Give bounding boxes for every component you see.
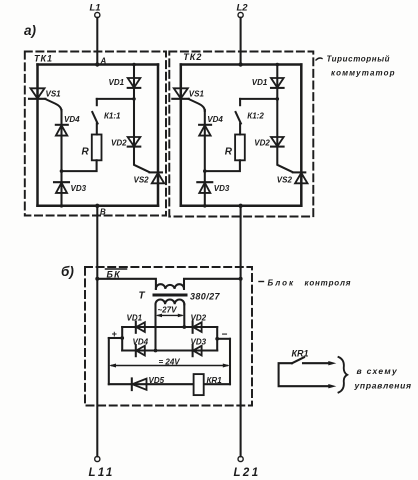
wire secondary left leg [154,304,156,350]
svg-text:VD2: VD2 [191,314,207,323]
svg-text:L11: L11 [89,467,115,479]
junction dot VD1 branch top [132,63,136,67]
wire VD4/VD3 branch (TK2) [204,110,206,206]
terminal L2 [238,12,243,17]
svg-text:контроля: контроля [305,279,352,288]
svg-text:~27V: ~27V [158,306,178,315]
TK2 inner box top wire [181,63,301,66]
TK1 inner box top wire [38,63,159,66]
arrow =24V span [112,365,228,367]
diode VD2 [128,137,141,146]
svg-text:L1: L1 [90,3,101,14]
junction dot BK right [239,277,243,281]
thyristor VS1 [31,88,45,98]
wire L2 down to TK2 top node [240,18,242,65]
TK1 inner box bottom wire [38,205,159,208]
svg-text:В: В [100,208,106,217]
bridge left side wire [121,327,123,351]
label BK with overline [106,268,127,270]
TK2 bottom node [238,204,242,208]
svg-text:VS2: VS2 [277,176,293,185]
annotation tick for thyristor commutator [316,58,322,60]
diode VD3 (TK2) [197,181,212,183]
KR1 contact blade [292,357,304,363]
wire L1 from node B down to L11 [96,206,98,456]
svg-text:L2: L2 [237,3,249,14]
svg-text:КR1: КR1 [207,376,223,385]
svg-text:Т: Т [139,291,146,302]
transformer T secondary winding [156,299,185,304]
terminal L11 [95,456,100,461]
svg-text:VS1: VS1 [46,90,62,99]
VS1 gate wire [45,99,61,111]
svg-text:VD4: VD4 [64,115,80,124]
svg-text:Блок: Блок [268,279,296,288]
resistor R [92,135,102,161]
junction dot VD1 branch / K1:1 wire [132,97,136,101]
svg-text:а): а) [24,23,37,38]
wire from R bottom to VD branch (TK2) [205,160,240,171]
transformer T primary winding [156,284,184,289]
svg-text:R: R [82,147,90,158]
svg-text:VD5: VD5 [149,376,165,385]
terminal L1 [95,12,100,17]
svg-text:L21: L21 [234,467,261,479]
svg-text:А: А [100,57,107,66]
wire L2 from TK2 bottom node down to L21 [240,206,242,456]
diode VD1 (TK2) [271,78,284,88]
VS1 gate wire (TK2) [189,99,205,111]
diode VD3 (bridge) [192,345,194,356]
diode VD4 (bridge) [135,345,137,356]
TK1 inner box right wire [157,65,160,206]
thyristor VS1 (TK2) [174,88,188,98]
junction dot left leg on row2 [154,349,158,353]
svg-text:К1:1: К1:1 [104,112,121,121]
BK top wire from L1 to transformer primary [97,279,156,289]
svg-text:К1:2: К1:2 [247,112,264,121]
TK2 inner box bottom wire [181,205,301,208]
diode VD1 (bridge) [135,322,137,333]
wire from R bottom to VD branch [62,160,97,171]
node A [95,62,99,66]
diode VD2 (bridge) [192,322,194,333]
svg-text:VD3: VD3 [71,184,87,193]
thyristor VS2 [150,171,163,173]
junction dot (TK2) [276,63,280,67]
bridge right side wire [216,327,218,351]
svg-text:VD4: VD4 [207,115,223,124]
svg-text:Тиристорный: Тиристорный [327,55,391,64]
leader dash for block kontrolya [259,281,264,283]
TK2 inner box left wire [180,65,183,206]
diode VD4 (TK2) [199,124,211,126]
svg-text:+: + [112,329,118,339]
junction dot (TK2) [276,97,280,101]
right rail wire [229,339,231,384]
arrow 27V span [158,314,182,316]
svg-text:VD2: VD2 [254,139,270,148]
svg-text:VD1: VD1 [252,78,268,87]
plus wire [109,337,122,339]
TK2 top node [238,62,242,66]
svg-text:VD4: VD4 [133,338,149,347]
svg-text:ТК2: ТК2 [183,52,202,62]
wire secondary right leg [183,304,185,327]
bridge row2 wire [122,349,217,351]
svg-text:коммутатор: коммутатор [331,69,396,78]
thyristor commutator TK2 dashed box [169,52,313,217]
junction dot VD branch / bottom wire [60,204,64,208]
thyristor commutator TK1 dashed box [25,52,166,216]
svg-text:VD1: VD1 [109,78,125,87]
svg-text:в схему: в схему [357,366,398,376]
diode VD5 [131,378,133,390]
svg-text:VS2: VS2 [134,176,150,185]
left rail wire [108,338,110,384]
svg-text:VS1: VS1 [189,90,205,99]
resistor R (TK2) [235,135,245,161]
junction dot VD branch / R wire [60,169,64,173]
contact K1:2 [240,98,277,100]
junction dot (TK2) [203,204,207,208]
contact K1:1 [97,98,134,100]
junction dot BK left [95,277,99,281]
svg-text:380/27: 380/27 [190,292,221,302]
wire VD4/VD3 branch [60,110,62,206]
wire L1 down to node A [96,18,98,65]
TK1 inner box left wire [36,65,39,206]
svg-text:б): б) [61,264,74,279]
wire VD1/VD2 branch [134,65,149,172]
junction dot (TK2) [203,169,207,173]
diode VD2 (TK2) [271,137,284,146]
bottom wire [109,383,230,385]
terminal L21 [238,456,243,461]
junction dot right leg on row1 [182,325,186,329]
bridge row1 wire [122,326,217,328]
node B [95,204,99,208]
svg-text:ТК1: ТК1 [34,54,53,64]
wire VD1/VD2 branch (TK2) [277,65,292,172]
svg-text:R: R [225,147,233,158]
svg-text:= 24V: = 24V [159,358,181,367]
svg-text:КR1: КR1 [292,349,309,359]
curly brace [339,357,348,393]
svg-text:−: − [222,330,228,341]
svg-text:VD1: VD1 [127,314,143,323]
svg-text:VD2: VD2 [111,139,127,148]
BK top wire from transformer primary to L2 [184,279,241,289]
KR1 contact circuit wires [279,363,331,386]
thyristor VS2 (TK2) [293,171,306,173]
diode VD4 [56,124,68,126]
diode VD3 [54,181,69,183]
control block BK dashed box [85,267,252,406]
minus wire [217,338,230,340]
svg-text:управления: управления [354,381,412,391]
transformer core [154,294,186,297]
svg-text:VD3: VD3 [214,184,230,193]
KR1 top wire with arrow [303,362,331,364]
svg-text:VD3: VD3 [191,338,207,347]
relay coil KR1 [194,374,204,395]
diode VD1 [128,78,141,88]
TK2 inner box right wire [300,65,303,206]
